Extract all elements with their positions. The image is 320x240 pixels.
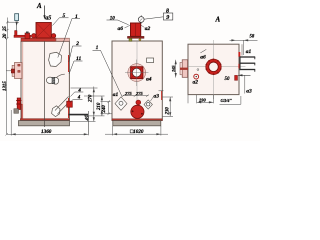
a1 diamond circle	[119, 101, 123, 105]
dim 240 vertical	[108, 102, 110, 114]
label 11 leader	[69, 61, 83, 74]
left flange outer plate	[180, 62, 182, 74]
shovel handle line 1	[55, 97, 69, 111]
svg-text:а3: а3	[246, 89, 252, 95]
svg-text:4: 4	[77, 96, 81, 101]
h tick y121.4 (floor)	[70, 120, 96, 122]
dim 230 vertical (right)	[169, 97, 171, 116]
a4 gasket circle (pink)	[128, 64, 146, 82]
door hinge mark lower	[18, 70, 20, 72]
middle view bottom red line	[112, 119, 162, 121]
drain fitting bolts	[16, 101, 21, 105]
small yellow valve below flange left	[129, 38, 132, 41]
section line A-A through left view	[44, 41, 46, 127]
svg-text:а5: а5	[45, 16, 51, 22]
middle view plinth	[113, 121, 161, 126]
pipe elbow red	[15, 31, 17, 36]
svg-text:а1: а1	[246, 49, 252, 55]
center line horizontal	[184, 66, 246, 68]
svg-text:A: A	[36, 2, 42, 10]
chimney flange bolt left	[32, 34, 36, 38]
svg-text:а6: а6	[118, 26, 124, 32]
svg-text:1: 1	[75, 14, 78, 20]
label 10 leader	[107, 20, 129, 25]
left view plinth	[19, 121, 70, 126]
dim 1315 bottom tick	[5, 133, 8, 135]
gauge stem	[140, 22, 142, 24]
svg-text:1315: 1315	[3, 81, 8, 91]
svg-text:1360: 1360	[41, 129, 52, 135]
left flange axis band	[180, 68, 188, 70]
h tick y115.9	[84, 115, 105, 117]
A arrow line	[44, 6, 46, 17]
svg-text:165: 165	[171, 65, 176, 72]
burner core hatch	[52, 78, 55, 84]
dim 1360 line	[7, 133, 89, 135]
svg-text:а2: а2	[145, 26, 151, 32]
svg-text:240: 240	[102, 105, 107, 114]
left dim arrows	[175, 60, 177, 78]
svg-text:8: 8	[166, 9, 169, 15]
central big red circle (pump flange)	[131, 105, 144, 118]
a4 square diagonals	[131, 67, 143, 79]
safety pipe horizontal red	[14, 35, 31, 37]
left flange pink (right view)	[182, 60, 187, 78]
dim 190 ext right	[212, 95, 214, 103]
a3 vertical leader	[244, 75, 246, 93]
arrow on line1 at 88	[93, 88, 95, 92]
svg-text:A: A	[215, 16, 221, 24]
red lining inside right edge	[68, 55, 70, 72]
a4 inner circle	[132, 68, 141, 77]
channel arm top	[240, 56, 256, 58]
gauge tick	[140, 15, 142, 20]
svg-text:а3: а3	[154, 94, 160, 100]
a3 connection diamond	[144, 100, 152, 109]
arrow on line1 at 121.4	[93, 117, 95, 121]
center line of middle view	[136, 41, 138, 100]
label 1 leader	[93, 50, 123, 96]
svg-text:□1020: □1020	[130, 129, 144, 135]
right view outer line top right	[241, 44, 243, 55]
G3/4 bracket line	[220, 96, 241, 104]
svg-text:25: 25	[3, 26, 8, 32]
arrows on line2	[101, 96, 103, 116]
label 4 upper leader	[71, 92, 84, 97]
v dim line 210	[101, 96, 103, 116]
front door axis tick	[6, 70, 11, 72]
flue ring inner	[209, 62, 219, 72]
svg-text:10: 10	[110, 17, 116, 22]
h tick y96	[84, 95, 105, 97]
a1 connection diamond	[115, 97, 127, 110]
chimney base flange	[128, 36, 145, 38]
blob opening 1	[49, 52, 62, 66]
left view body	[21, 41, 69, 120]
dim 58 ext line	[243, 40, 245, 55]
left view bottom red line	[20, 119, 69, 121]
arrowhead	[238, 74, 243, 76]
a4 cross lines	[125, 60, 149, 87]
a3 diamond circle	[147, 103, 150, 106]
left dim vertical	[175, 60, 177, 78]
small circle a2 (right view)	[194, 74, 199, 79]
svg-text:270: 270	[89, 94, 94, 103]
dim 190 ext mid	[196, 95, 198, 103]
red wall seg 3 (lower fitting)	[235, 75, 238, 80]
blob opening 3 (ash shovel)	[52, 106, 60, 117]
svg-text:50: 50	[225, 77, 231, 82]
front door red hub	[11, 69, 14, 73]
svg-text:а1: а1	[113, 92, 119, 98]
dim 240 ticks	[107, 100, 110, 115]
svg-text:230: 230	[166, 107, 171, 116]
channel arm mid	[240, 62, 256, 64]
channel end caps	[254, 57, 256, 72]
svg-text:4: 4	[77, 88, 81, 93]
burner wire curve	[57, 74, 65, 77]
dim ticks	[6, 21, 9, 40]
center line vertical	[213, 40, 215, 99]
blob opening 2 (burner) left lobe	[46, 77, 53, 83]
tank drop arrow	[15, 22, 18, 26]
flag 8/9 box	[163, 13, 172, 20]
bottom-left drain fitting red	[17, 98, 20, 110]
label 4 lower leader	[70, 99, 83, 102]
dim 1020 arrows	[113, 133, 161, 135]
dim 240 h lines	[101, 102, 113, 114]
drain fitting gray block	[14, 109, 19, 114]
dim 25/20 vertical line	[6, 18, 8, 39]
bottom-right return fitting red	[67, 101, 73, 107]
red lining inside left edge bottom	[21, 104, 23, 119]
pump bolts	[132, 110, 134, 112]
label 1 leader	[58, 19, 80, 58]
expansion tank	[15, 14, 19, 21]
a2 leader	[141, 25, 145, 28]
a2 center dot	[196, 76, 197, 77]
left view inner pink wall line	[22, 42, 24, 119]
chimney stub on left view (hatched red box)	[36, 23, 51, 39]
left view top plate pink part	[56, 38, 69, 41]
red wall seg 2	[238, 64, 240, 69]
dim 190 ext left	[187, 95, 189, 103]
dim 1315 vertical line	[6, 38, 8, 134]
chimney inner line	[135, 23, 137, 36]
svg-text:9: 9	[166, 15, 169, 21]
blob opening 2 right lobe	[53, 77, 59, 84]
a6 leader	[125, 25, 131, 28]
tick at a3 height	[159, 90, 164, 92]
svg-text:58: 58	[250, 35, 255, 40]
A arrowhead	[43, 15, 45, 19]
a4 red square	[131, 67, 143, 79]
dim 190 arrows	[197, 101, 214, 103]
dim 1020 extension right	[160, 126, 162, 136]
dim 1360 arrows	[11, 133, 88, 135]
svg-text:а2: а2	[193, 80, 199, 86]
dim 275 275 line	[123, 95, 149, 97]
tank stem	[16, 22, 18, 31]
red wall seg 1	[238, 52, 240, 57]
central small red circle	[136, 100, 141, 105]
shovel handle line 2	[58, 102, 70, 114]
dim 1020 extension left	[112, 126, 114, 136]
return pipe end vertical	[87, 111, 89, 135]
red lining right edge bottom	[68, 98, 70, 118]
burner hatched core	[52, 77, 55, 83]
svg-text:а6: а6	[200, 55, 206, 61]
flag 8/9 leader	[144, 17, 163, 19]
left view top plate red part	[21, 38, 56, 41]
svg-text:а4: а4	[146, 77, 152, 83]
channel spine	[239, 56, 241, 70]
arrow on line1 at 115.9	[93, 112, 95, 116]
svg-text:20: 20	[3, 33, 8, 39]
svg-text:275: 275	[135, 91, 144, 96]
flue ring outer	[206, 59, 221, 74]
leader slash	[200, 49, 206, 53]
dim 58 arrows	[231, 39, 248, 41]
a3 leader	[151, 97, 154, 102]
dim 190 line	[197, 101, 214, 103]
front door outer plate	[12, 65, 14, 76]
red lining right edge of middle view	[161, 91, 163, 100]
chimney stub (middle view)	[131, 23, 141, 36]
arrowed line to lower fitting	[238, 74, 251, 76]
extension line at tank bottom	[7, 21, 19, 23]
extension line bottom-left	[10, 110, 12, 136]
dim 230 h lines	[163, 97, 174, 116]
middle view body	[112, 41, 162, 121]
h tick y88	[71, 87, 98, 89]
tiny circle above a2	[197, 69, 199, 71]
label 5 underline/leader	[53, 18, 69, 26]
label 2 leader	[69, 46, 82, 62]
chimney flange bolt right	[51, 34, 55, 38]
safety valve body	[25, 33, 30, 39]
door hinge mark upper	[18, 64, 20, 66]
return pipe black	[69, 114, 89, 116]
dim 275 ticks	[122, 95, 149, 97]
gauge circle	[138, 17, 144, 23]
svg-text:5: 5	[63, 13, 66, 19]
svg-text:275: 275	[124, 91, 133, 96]
front door flange (pink, left side)	[15, 63, 22, 79]
gold dot below flange right	[139, 39, 141, 41]
v dim line 270	[93, 87, 95, 122]
safety valve cap	[26, 32, 29, 34]
dim 1020 line	[105, 133, 168, 135]
svg-text:190: 190	[199, 97, 207, 102]
dim 58 line	[230, 39, 258, 41]
dim 230 arrows	[169, 97, 171, 116]
channel arm bottom	[240, 69, 256, 71]
right view body	[188, 44, 239, 94]
svg-text:45: 45	[86, 115, 91, 121]
flue ring bolt dots	[220, 68, 222, 70]
svg-text:G3/4": G3/4"	[221, 98, 233, 103]
chimney diagonals	[36, 23, 51, 39]
inspection plate	[147, 58, 154, 63]
